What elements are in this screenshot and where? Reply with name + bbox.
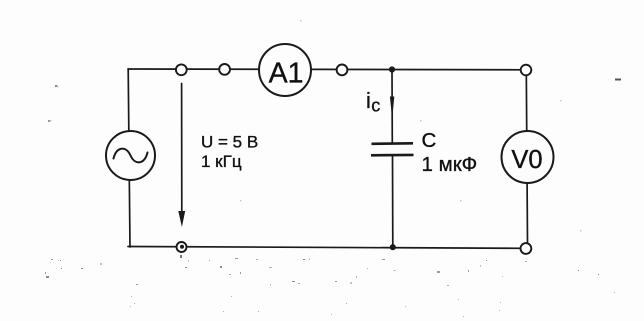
svg-text:1 кГц: 1 кГц	[201, 152, 242, 171]
svg-text:U = 5 В: U = 5 В	[201, 133, 258, 152]
svg-text:V0: V0	[511, 146, 542, 174]
svg-text:i: i	[366, 88, 371, 113]
svg-text:A1: A1	[269, 58, 304, 90]
svg-text:1 мкФ: 1 мкФ	[422, 153, 478, 176]
svg-text:C: C	[422, 129, 437, 152]
svg-text:c: c	[371, 95, 380, 115]
